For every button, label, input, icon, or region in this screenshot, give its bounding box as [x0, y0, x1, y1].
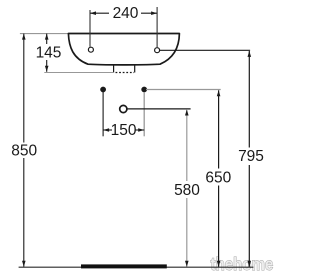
- water supply circle: [120, 105, 127, 112]
- right mounting hole: [155, 48, 160, 53]
- dimension 850 line lower segment with down arrow: [23, 158, 25, 267]
- dimension 150 line left segment with arrow: [103, 129, 112, 131]
- bracket fixing dot left: [100, 87, 106, 93]
- svg-text:150: 150: [111, 122, 137, 139]
- dimension 145 line upper segment with up arrow: [46, 34, 48, 44]
- dimension 240 extension line left: [89, 10, 91, 47]
- dimension 850 line upper segment with up arrow: [23, 34, 25, 143]
- drain outline left tick: [113, 65, 115, 73]
- svg-text:thehome: thehome: [211, 255, 274, 274]
- dimension 650 line upper segment with up arrow: [218, 90, 220, 168]
- wall reference extension line (top left, basin rim level): [20, 33, 69, 35]
- dimension 580 line lower segment with down arrow: [186, 198, 188, 267]
- svg-text:650: 650: [205, 169, 231, 186]
- floor thick bar: [81, 264, 167, 268]
- dimension 580 line upper segment with up arrow (gray line, black arrow): [186, 110, 188, 181]
- bracket fixing dot right: [141, 87, 147, 93]
- extension line below left dot: [102, 92, 104, 136]
- basin outline: [68, 34, 179, 65]
- left mounting hole: [88, 47, 93, 52]
- extension line at dot level (650 reference, gray): [146, 89, 221, 91]
- extension line below right dot (gray): [143, 92, 145, 136]
- dimension 650 line lower segment with down arrow: [218, 186, 220, 267]
- svg-text:580: 580: [174, 182, 200, 199]
- drain outline right tick: [134, 65, 136, 73]
- dimension 240 extension line right: [156, 7, 158, 47]
- drain outline dashed bottom: [116, 72, 135, 74]
- svg-text:240: 240: [113, 5, 139, 22]
- extension line at circle level (580 reference): [127, 108, 190, 110]
- dimension 240 line left segment with arrow: [90, 12, 109, 14]
- extension line at hole level (795 reference): [160, 49, 250, 51]
- svg-text:145: 145: [36, 44, 62, 61]
- dimension 795 line upper segment with up arrow: [248, 51, 250, 148]
- svg-text:795: 795: [238, 148, 264, 165]
- extension line at drain bottom (145 reference): [44, 72, 113, 74]
- dimension 240 line right segment with arrow: [141, 12, 157, 14]
- floor line: [19, 266, 254, 268]
- dimension 795 line lower segment with down arrow: [248, 165, 250, 267]
- dimension 145 line lower segment with down arrow: [46, 60, 48, 72]
- dimension 150 line right segment with arrow: [136, 129, 145, 131]
- svg-text:850: 850: [11, 142, 37, 159]
